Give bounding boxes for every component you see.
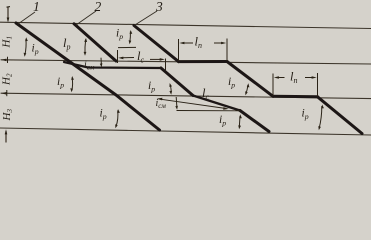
arrow icm1 [100, 58, 103, 68]
slope arc ip9 tier2 [70, 76, 74, 92]
ramp exit G2 gentle [64, 62, 161, 68]
slope arc ip7 [115, 109, 120, 128]
dimension lp2 left arrow [274, 76, 285, 79]
arrowhead left end L3 [1, 92, 7, 95]
slope arc ip6 [238, 114, 242, 129]
reference line icm2 horizontal [177, 110, 241, 112]
arrowhead left end L2 [1, 59, 7, 62]
dimension lc2 slanted line [157, 98, 229, 110]
line L3 tier-3 floor [1, 93, 371, 98]
line L4 bottom floor [0, 128, 371, 135]
ramp exit G3 gentle [193, 96, 240, 111]
slope arc ip1 [24, 37, 28, 57]
dimension lp2 right arrow [305, 76, 317, 79]
ramp R1 [16, 23, 160, 130]
platform P2 [273, 95, 318, 99]
dimension lc1 tick left [117, 50, 119, 63]
dimension lp2 tick left [272, 74, 274, 97]
line L2 tier-2 floor [1, 60, 371, 64]
ramp R3 [134, 26, 179, 62]
vertical arrow lp [84, 38, 88, 56]
paper background [0, 0, 371, 144]
leader 3 [135, 11, 158, 25]
dimension lc1 right arrow [150, 58, 165, 61]
slope arc ip4 [245, 83, 249, 95]
dimension lp1 tick right [226, 39, 228, 62]
tick at L2 left [7, 57, 9, 63]
leader 1 [18, 12, 35, 24]
leader 2 [76, 11, 96, 25]
dimension lp1 right arrow [214, 42, 226, 45]
ramp drop S2 [161, 68, 193, 96]
dimension lp1 left arrow [179, 42, 193, 45]
dimension lc1 tick right [165, 59, 167, 71]
slope arc ip8 [318, 105, 324, 131]
dimension lp2 tick right [317, 73, 319, 97]
line L1 ground surface [0, 22, 371, 28]
dimension arrow H top [7, 7, 11, 23]
dimension lp1 tick left [178, 39, 180, 61]
ramp D3 [318, 97, 363, 134]
ramp D2 [227, 62, 273, 97]
slope arc ip5 [169, 83, 172, 95]
platform P1 [179, 60, 228, 63]
ramp drop S3 [240, 111, 269, 132]
ramp R2 [74, 24, 116, 61]
svg-text:1: 1 [33, 0, 40, 14]
dimension lc1 left arrow [118, 57, 134, 60]
slope arc ip3 [118, 30, 136, 48]
tick at L3 left [6, 90, 8, 96]
arrow icm2 [175, 97, 178, 110]
dimension arrow H bottom [5, 129, 8, 142]
